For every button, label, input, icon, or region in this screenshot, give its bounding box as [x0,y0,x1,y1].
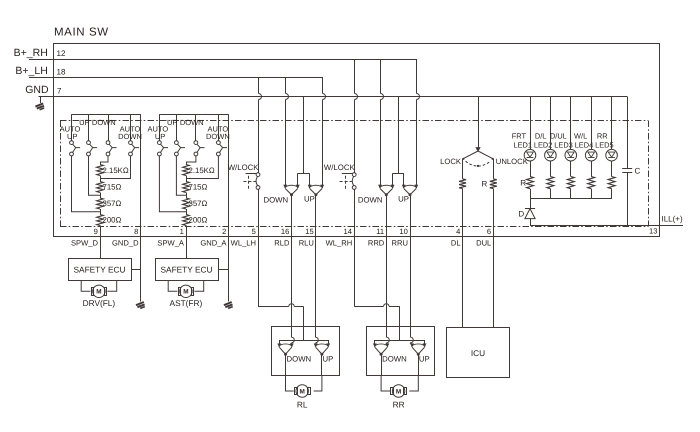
contact RLD DOWN (main switch) [285,189,298,195]
wire B+_RH bus [54,59,417,61]
wire DUL pin 6 to ICU [493,236,495,327]
svg-text:UP: UP [323,354,334,363]
wire ECU2 motor legs [168,281,177,292]
svg-text:R: R [520,179,526,188]
svg-text:715Ω: 715Ω [189,182,208,191]
svg-text:7: 7 [57,87,62,96]
svg-text:M: M [96,289,101,296]
svg-text:ILL(+): ILL(+) [662,215,683,224]
wire B+_LH bus [54,77,323,79]
svg-text:UP: UP [167,118,177,127]
svg-text:LED5: LED5 [595,140,614,149]
diode D (illumination) [525,208,535,210]
rocker travel arc (dashed) [466,161,491,166]
svg-text:MAIN SW: MAIN SW [54,27,109,39]
svg-text:LOCK: LOCK [440,157,462,166]
svg-text:M: M [183,289,188,296]
wire GND bus [54,96,628,98]
wire B+_RH feed [29,59,54,61]
svg-text:DOWN: DOWN [180,118,204,127]
wire RRU apex to pin 10 [410,195,412,236]
wire to pin 4 [462,189,464,236]
svg-text:UNLOCK: UNLOCK [496,157,529,166]
switch group SPW_D (AUTO UP/UP/DOWN/AUTO DOWN) [72,114,141,116]
wire B+_LH feed [29,77,54,79]
svg-text:GND: GND [25,84,49,96]
wire RLU apex to pin 15 [315,195,317,236]
wire WL_LH pin 5 to RL block [258,236,260,307]
svg-text:SAFETY ECU: SAFETY ECU [74,264,126,274]
svg-text:FRT: FRT [512,132,527,141]
svg-text:UP: UP [419,354,430,363]
svg-text:RRU: RRU [392,239,408,248]
wire diode to ILL line [530,219,532,226]
svg-text:2.15KΩ: 2.15KΩ [189,166,215,175]
resistor R (unlock side) [490,179,497,189]
motor block RL (rear left) [272,327,340,376]
svg-text:LED4: LED4 [575,140,594,149]
svg-text:D/L: D/L [535,132,547,141]
svg-text:SAFETY ECU: SAFETY ECU [161,264,213,274]
wire RLD apex to pin 16 [291,195,293,236]
svg-text:1: 1 [180,227,184,236]
wire GND drop to RH pair common bar [398,97,400,174]
svg-text:W/LOCK: W/LOCK [228,163,260,172]
wire WL_RH pin 14 to RR block [354,236,356,306]
svg-text:12: 12 [57,49,66,58]
svg-text:11: 11 [376,227,384,236]
wire B+_RH drop to W/LOCK RH [354,59,356,94]
wire B+_LH drop to W/LOCK LH [258,77,260,94]
svg-text:W/L: W/L [574,132,587,141]
svg-text:2.15KΩ: 2.15KΩ [103,166,129,175]
svg-text:DOWN: DOWN [263,195,288,204]
svg-text:SPW_A: SPW_A [157,239,185,248]
wire B+_RH end drop to RR-UP contact [416,59,418,94]
svg-text:357Ω: 357Ω [189,199,208,208]
switch assembly boundary (dash-dot) [60,120,648,122]
motor RL [296,385,308,397]
svg-text:14: 14 [344,227,352,236]
svg-text:UP: UP [79,118,89,127]
svg-text:M: M [300,388,305,395]
wire rail to diode [530,199,532,209]
svg-text:DOWN: DOWN [358,195,383,204]
ICU box [447,328,510,378]
wire GND feed [39,96,54,98]
svg-text:UP: UP [398,194,409,203]
wire WL_RH to pin 14 [354,189,356,236]
resistor R (lock side) [459,179,466,189]
contact RLU UP (main switch) [310,189,323,195]
wire GND stub [40,97,42,104]
svg-text:AST(FR): AST(FR) [170,298,203,308]
switch group SPW_A (AUTO UP/UP/DOWN/AUTO DOWN) [159,114,228,116]
wire SPW_D pin 9 to SAFETY ECU [100,236,102,258]
wire ILL(+) [530,225,683,227]
svg-text:10: 10 [399,227,407,236]
svg-text:200Ω: 200Ω [189,215,208,224]
svg-text:UP: UP [155,132,165,141]
svg-text:D/UL: D/UL [550,132,567,141]
svg-text:DOWN: DOWN [382,354,407,363]
wire GND drop to lock rocker [478,97,480,149]
rocker contact arms LOCK/UNLOCK [463,151,478,159]
motor AST(FR) [180,285,192,297]
svg-text:RLU: RLU [299,239,314,248]
svg-text:RR: RR [393,400,405,410]
svg-text:RLD: RLD [274,239,290,248]
wire RR block to motor [381,376,390,392]
capacitor C [627,97,629,169]
svg-text:R: R [482,180,488,189]
svg-text:UP: UP [304,194,315,203]
svg-text:357Ω: 357Ω [103,199,122,208]
wire GND_A pin 2 to ground [228,236,230,302]
svg-text:LED2: LED2 [534,140,553,149]
ground G1 [35,103,43,106]
svg-text:8: 8 [134,227,138,236]
svg-text:B+_RH: B+_RH [14,47,48,59]
svg-text:15: 15 [305,227,313,236]
wire RL block to motor [286,376,294,392]
wire WL_LH to pin 5 [258,189,260,236]
svg-text:D: D [518,209,524,218]
wire SPW_A pin 1 to SAFETY ECU [186,236,188,258]
svg-text:DOWN: DOWN [206,132,230,141]
svg-text:13: 13 [649,226,657,235]
SAFETY ECU (driver) box [69,259,132,281]
ground G2 [136,302,144,305]
svg-text:DUL: DUL [476,239,491,248]
wire LOCK contact down [462,159,464,179]
wire GND drop to LH pair common bar [303,97,305,174]
rocker pivot arrow [476,147,481,151]
motor RR [392,385,404,397]
svg-text:200Ω: 200Ω [103,215,122,224]
svg-text:DOWN: DOWN [287,354,312,363]
wire B+_LH drop to RL-DOWN contact [285,77,287,94]
wire B+_RH drop to RR-DOWN contact [380,59,382,94]
svg-text:DL: DL [451,239,461,248]
svg-text:WL_RH: WL_RH [326,239,353,248]
svg-text:16: 16 [281,227,289,236]
svg-text:DOWN: DOWN [92,118,116,127]
svg-text:18: 18 [57,68,66,77]
svg-text:RL: RL [297,400,308,410]
svg-text:DOWN: DOWN [118,132,142,141]
svg-text:B+_LH: B+_LH [15,65,47,77]
svg-text:W/LOCK: W/LOCK [324,163,356,172]
svg-text:RR: RR [597,132,608,141]
wire GND_D pin 8 to ground [140,236,142,302]
svg-text:SPW_D: SPW_D [71,239,99,248]
wire RRD apex to pin 11 [386,195,388,236]
svg-text:ICU: ICU [471,348,485,358]
wire B+_LH end drop to RL-UP contact [322,77,324,94]
svg-text:UP: UP [67,132,77,141]
svg-text:M: M [396,388,401,395]
svg-text:715Ω: 715Ω [103,182,122,191]
wire DL pin 4 to ICU [462,236,464,327]
motor block RR (rear right) [367,327,435,376]
SAFETY ECU (assist) box [156,259,219,281]
svg-text:DRV(FL): DRV(FL) [83,298,116,308]
svg-text:LED1: LED1 [514,140,533,149]
svg-text:WL_LH: WL_LH [231,239,256,248]
wire ECU1 motor legs [81,281,90,292]
wire ECU1 to GND_D [131,269,141,271]
svg-text:6: 6 [487,227,491,236]
ground G3 [224,302,232,305]
wire UNLOCK contact down [493,159,495,179]
svg-text:GND_A: GND_A [200,239,227,248]
contact RRU UP (main switch) [404,189,417,195]
svg-text:4: 4 [456,227,460,236]
LED common rail [530,198,612,200]
wire to pin 6 [493,189,495,236]
svg-text:C: C [635,167,641,176]
svg-text:RRD: RRD [368,239,385,248]
wire ECU2 to GND_A [218,269,229,271]
contact RRD DOWN (main switch) [380,189,393,195]
motor DRV(FL) [93,285,105,297]
svg-text:5: 5 [252,227,256,236]
main switch connector box [54,44,660,237]
svg-text:9: 9 [94,227,98,236]
svg-text:GND_D: GND_D [112,239,139,248]
svg-text:2: 2 [222,227,226,236]
